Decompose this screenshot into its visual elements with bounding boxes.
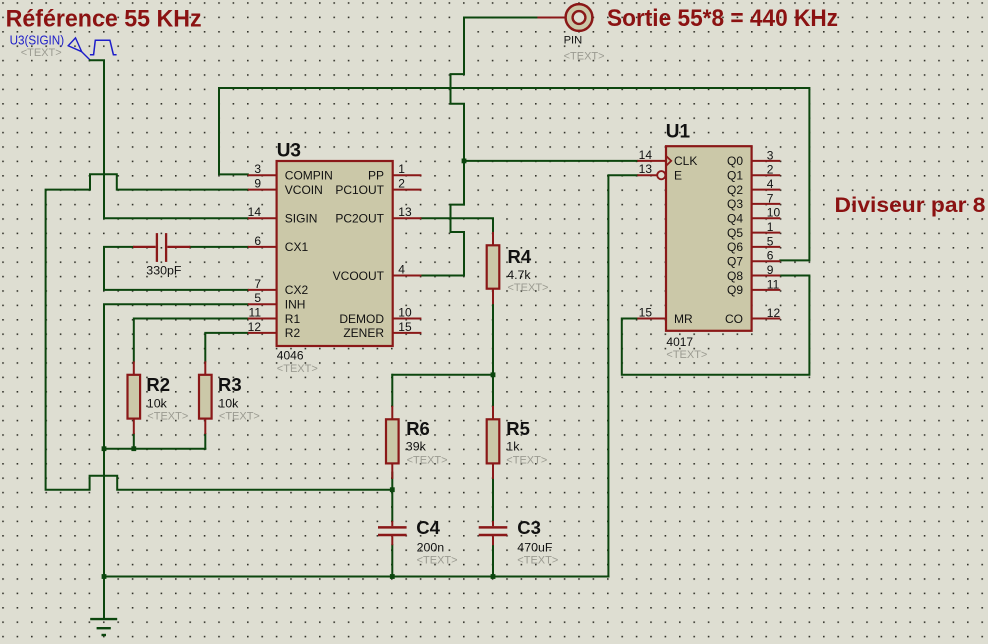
op-amp U3 body (4046 PLL) bbox=[277, 161, 393, 346]
pin 11 R1 (U3) bbox=[248, 306, 301, 326]
source probe U3(SIGIN) bbox=[10, 33, 117, 60]
wire R3 bottom bbox=[204, 434, 206, 449]
wire C4 bottom to ground rail bbox=[391, 545, 393, 576]
svg-text:12: 12 bbox=[248, 320, 262, 334]
svg-text:COMPIN: COMPIN bbox=[285, 169, 333, 183]
pin 9 VCOIN (U3) bbox=[248, 177, 323, 197]
svg-text:1k: 1k bbox=[506, 440, 520, 454]
value 330pF bbox=[146, 264, 182, 278]
pin 7 Q3 (U1) bbox=[727, 191, 780, 211]
svg-text:Diviseur par 8: Diviseur par 8 bbox=[835, 194, 986, 217]
svg-text:PIN: PIN bbox=[564, 35, 583, 47]
junction R6/C4/VCOIN node bbox=[390, 487, 395, 492]
pin 1 Q5 (U1) bbox=[727, 220, 780, 240]
pin 10 DEMOD (U3) bbox=[339, 306, 421, 326]
svg-text:11: 11 bbox=[767, 277, 780, 291]
R4 <TEXT> placeholder bbox=[508, 282, 549, 294]
svg-text:<TEXT>: <TEXT> bbox=[506, 455, 547, 467]
refdes C3 bbox=[517, 517, 541, 538]
wire C3 bottom to ground rail bbox=[492, 545, 494, 576]
wire ground rail bbox=[104, 576, 608, 578]
R3 <TEXT> placeholder bbox=[219, 411, 260, 423]
svg-text:10k: 10k bbox=[147, 397, 168, 411]
pin 14 CLK (U1) with clock chevron bbox=[637, 148, 697, 168]
pin 13 E (U1) with inversion bubble bbox=[637, 162, 682, 182]
svg-text:Q6: Q6 bbox=[727, 240, 743, 254]
junction ground rail left bbox=[102, 574, 107, 579]
refdes R4 bbox=[508, 246, 532, 267]
svg-text:CO: CO bbox=[725, 312, 743, 326]
svg-text:4046: 4046 bbox=[277, 349, 304, 363]
junction C4/ground rail bbox=[390, 574, 395, 579]
svg-text:<TEXT>: <TEXT> bbox=[21, 47, 62, 59]
R5 <TEXT> placeholder bbox=[506, 455, 547, 467]
refdes R5 bbox=[506, 418, 530, 439]
pin 10 Q4 (U1) bbox=[727, 206, 780, 226]
wire source to SIGIN corner bbox=[90, 60, 104, 218]
svg-text:R2: R2 bbox=[146, 374, 170, 395]
svg-text:14: 14 bbox=[248, 205, 262, 219]
svg-text:R2: R2 bbox=[285, 326, 301, 340]
R6 <TEXT> placeholder bbox=[407, 455, 448, 467]
wire R2/R3 bottom bus bbox=[104, 448, 205, 450]
svg-text:Q3: Q3 bbox=[727, 197, 743, 211]
pin 12 R2 (U3) bbox=[248, 320, 301, 340]
svg-text:7: 7 bbox=[254, 277, 261, 291]
ground bbox=[90, 577, 117, 636]
svg-text:PP: PP bbox=[368, 169, 384, 183]
svg-text:5: 5 bbox=[767, 234, 774, 248]
svg-text:PC2OUT: PC2OUT bbox=[335, 212, 384, 226]
svg-text:Q1: Q1 bbox=[727, 169, 743, 183]
resistor R2 (10k) bbox=[128, 361, 141, 434]
svg-text:E: E bbox=[674, 169, 682, 183]
junction R2 bottom node bbox=[131, 446, 136, 451]
svg-text:R1: R1 bbox=[285, 312, 301, 326]
wire R5 bottom to C3 top bbox=[492, 473, 494, 521]
svg-text:11: 11 bbox=[249, 306, 262, 320]
svg-text:U1: U1 bbox=[666, 121, 691, 142]
junction R4/R5/R6 node bbox=[491, 372, 496, 377]
svg-text:13: 13 bbox=[639, 162, 653, 176]
junction R2/R3 net to ground column bbox=[102, 446, 107, 451]
svg-text:VCOOUT: VCOOUT bbox=[333, 269, 385, 283]
svg-text:Q9: Q9 bbox=[727, 283, 743, 297]
svg-text:R3: R3 bbox=[218, 374, 242, 395]
wire Q8 to MR loop bbox=[622, 276, 810, 375]
svg-text:<TEXT>: <TEXT> bbox=[417, 555, 458, 567]
svg-text:MR: MR bbox=[674, 312, 693, 326]
svg-text:2: 2 bbox=[767, 163, 774, 177]
pin 2 PC1OUT (U3) bbox=[335, 177, 421, 197]
label 'Référence 55 KHz' bbox=[6, 6, 202, 32]
svg-text:4.7k: 4.7k bbox=[507, 268, 531, 282]
svg-text:4: 4 bbox=[767, 177, 774, 191]
wire U3 R2 pin to R3 top bbox=[205, 333, 248, 362]
terminal <TEXT> placeholder bbox=[564, 51, 605, 63]
svg-text:U3(SIGIN): U3(SIGIN) bbox=[10, 33, 65, 48]
C4 <TEXT> placeholder bbox=[417, 555, 458, 567]
svg-text:<TEXT>: <TEXT> bbox=[666, 349, 707, 361]
wire feedback Q7 to COMPIN rail bbox=[219, 88, 809, 260]
svg-text:10: 10 bbox=[767, 206, 781, 220]
svg-text:<TEXT>: <TEXT> bbox=[147, 411, 188, 423]
svg-text:CLK: CLK bbox=[674, 154, 697, 168]
wire R2 bottom bbox=[133, 434, 135, 449]
pin 3 Q0 (U1) bbox=[727, 148, 780, 168]
resistor R5 (1k) bbox=[487, 406, 500, 479]
svg-text:CX1: CX1 bbox=[285, 240, 309, 254]
capacitor C4 bbox=[378, 521, 407, 545]
svg-text:3: 3 bbox=[767, 148, 774, 162]
svg-text:ZENER: ZENER bbox=[343, 326, 384, 340]
reference designator U3 bbox=[277, 141, 301, 162]
pin 13 PC2OUT (U3) bbox=[335, 205, 421, 225]
wire ground column bbox=[103, 449, 105, 577]
label 'Diviseur par 8' bbox=[835, 194, 986, 217]
svg-text:1: 1 bbox=[767, 220, 774, 234]
value 470uF (C3) bbox=[517, 541, 553, 555]
svg-text:13: 13 bbox=[398, 205, 412, 219]
wire INH down left column bbox=[104, 304, 248, 449]
wire node to R5 top bbox=[492, 375, 494, 406]
resistor R4 (4.7k) bbox=[487, 232, 500, 304]
svg-text:<TEXT>: <TEXT> bbox=[277, 363, 318, 375]
svg-text:<TEXT>: <TEXT> bbox=[517, 555, 558, 567]
svg-text:6: 6 bbox=[254, 234, 261, 248]
U3 <TEXT> placeholder bbox=[277, 363, 318, 375]
wire ground rail up to U1 E bbox=[608, 175, 637, 576]
svg-text:15: 15 bbox=[639, 306, 653, 320]
refdes C4 bbox=[416, 517, 440, 538]
value 200n (C4) bbox=[417, 541, 445, 555]
capacitor C3 bbox=[479, 521, 508, 545]
R2 <TEXT> placeholder bbox=[147, 411, 188, 423]
svg-text:Q5: Q5 bbox=[727, 226, 743, 240]
pin 6 Q7 (U1) bbox=[727, 249, 780, 269]
wire VCOIN to loop-filter node (two hops) bbox=[46, 174, 393, 490]
svg-text:Sortie 55*8 = 440 KHz: Sortie 55*8 = 440 KHz bbox=[607, 6, 838, 32]
svg-text:DEMOD: DEMOD bbox=[339, 312, 384, 326]
svg-text:R4: R4 bbox=[508, 246, 532, 267]
wire VCO node down to VCOOUT (hop) bbox=[421, 161, 464, 276]
pin 6 CX1 (U3) bbox=[248, 234, 309, 254]
wire node to C4 top bbox=[391, 490, 393, 521]
svg-text:<TEXT>: <TEXT> bbox=[407, 455, 448, 467]
pin 3 COMPIN (U3) bbox=[248, 162, 333, 182]
svg-text:Q7: Q7 bbox=[727, 255, 743, 269]
value 4046 bbox=[277, 349, 304, 363]
svg-text:330pF: 330pF bbox=[146, 264, 182, 278]
svg-text:14: 14 bbox=[639, 148, 653, 162]
svg-text:CX2: CX2 bbox=[285, 283, 309, 297]
svg-text:6: 6 bbox=[767, 249, 774, 263]
svg-text:Référence 55 KHz: Référence 55 KHz bbox=[6, 6, 202, 32]
refdes R3 bbox=[218, 374, 242, 395]
value 4.7k (R4) bbox=[507, 268, 531, 282]
svg-text:R6: R6 bbox=[406, 418, 430, 439]
svg-text:10k: 10k bbox=[218, 397, 239, 411]
refdes R2 bbox=[146, 374, 170, 395]
reference designator U1 bbox=[666, 121, 691, 142]
wire node down to R6 bbox=[391, 375, 393, 406]
wire PIN to VCO output node (hop over feedback rail) bbox=[451, 18, 537, 161]
pin 4 VCOOUT (U3) bbox=[333, 263, 422, 283]
svg-text:SIGIN: SIGIN bbox=[285, 212, 318, 226]
junction VCO output node bbox=[462, 159, 467, 164]
svg-text:Q0: Q0 bbox=[727, 154, 743, 168]
pin 9 Q8 (U1) bbox=[727, 263, 780, 283]
svg-text:Q2: Q2 bbox=[727, 183, 743, 197]
svg-text:<TEXT>: <TEXT> bbox=[564, 51, 605, 63]
svg-text:Q4: Q4 bbox=[727, 212, 743, 226]
label 'Sortie 55*8 = 440 KHz' bbox=[607, 6, 838, 32]
U1 <TEXT> placeholder bbox=[666, 349, 707, 361]
svg-text:9: 9 bbox=[767, 263, 774, 277]
svg-text:<TEXT>: <TEXT> bbox=[508, 282, 549, 294]
wire 330pF left to CX2 bbox=[104, 247, 248, 290]
svg-text:7: 7 bbox=[767, 191, 774, 205]
svg-text:C3: C3 bbox=[517, 517, 541, 538]
pin 5 Q6 (U1) bbox=[727, 234, 780, 254]
value 4017 bbox=[666, 335, 693, 349]
svg-text:2: 2 bbox=[398, 177, 405, 191]
counter U1 body (4017) bbox=[666, 146, 752, 331]
svg-text:3: 3 bbox=[254, 162, 261, 176]
value 10k (R3) bbox=[218, 397, 239, 411]
C3 <TEXT> placeholder bbox=[517, 555, 558, 567]
pin 4 Q2 (U1) bbox=[727, 177, 780, 197]
svg-text:Q8: Q8 bbox=[727, 269, 743, 283]
pin 14 SIGIN (U3) bbox=[248, 205, 318, 225]
svg-text:U3: U3 bbox=[277, 141, 301, 162]
source <TEXT> placeholder bbox=[21, 47, 62, 59]
svg-text:VCOIN: VCOIN bbox=[285, 183, 323, 197]
value 10k (R2) bbox=[147, 397, 168, 411]
capacitor C1 330pF (horizontal, at CX1) bbox=[133, 233, 190, 262]
svg-text:39k: 39k bbox=[406, 440, 427, 454]
pin 2 Q1 (U1) bbox=[727, 163, 780, 183]
wire R6 bottom to VCOIN node bbox=[391, 473, 393, 490]
wire node to R6 top bbox=[392, 374, 493, 376]
junction C3/ground rail bbox=[491, 574, 496, 579]
resistor R6 (39k) bbox=[386, 406, 399, 479]
pin 15 MR (U1) bbox=[637, 306, 693, 326]
svg-text:C4: C4 bbox=[416, 517, 440, 538]
pin 11 Q9 (U1) bbox=[727, 277, 780, 297]
svg-text:15: 15 bbox=[398, 320, 412, 334]
value 1k (R5) bbox=[506, 440, 520, 454]
terminal PIN (Sortie) bbox=[536, 4, 592, 31]
pin 7 CX2 (U3) bbox=[248, 277, 309, 297]
svg-text:4: 4 bbox=[398, 263, 405, 277]
svg-text:4017: 4017 bbox=[666, 335, 693, 349]
value 39k (R6) bbox=[406, 440, 427, 454]
svg-text:200n: 200n bbox=[417, 541, 445, 555]
wire U3 R1 to R2 top bbox=[134, 319, 248, 362]
pin 15 ZENER (U3) bbox=[343, 320, 421, 340]
svg-text:470uF: 470uF bbox=[517, 541, 553, 555]
refdes R6 bbox=[406, 418, 430, 439]
wire PC2OUT to R4 top bbox=[421, 218, 493, 234]
pin 12 CO (U1) bbox=[725, 306, 780, 326]
pin 1 PP (U3) bbox=[368, 162, 421, 182]
svg-text:1: 1 bbox=[398, 162, 405, 176]
svg-text:R5: R5 bbox=[506, 418, 530, 439]
svg-text:INH: INH bbox=[285, 298, 306, 312]
wire 330pF to CX1 bbox=[190, 246, 248, 248]
svg-text:PC1OUT: PC1OUT bbox=[335, 183, 384, 197]
terminal name PIN bbox=[564, 35, 583, 47]
svg-text:10: 10 bbox=[398, 306, 412, 320]
wire SIGIN row bbox=[104, 217, 248, 219]
wire R4 bottom to node bbox=[492, 304, 494, 375]
svg-text:<TEXT>: <TEXT> bbox=[219, 411, 260, 423]
pin 5 INH (U3) bbox=[248, 291, 306, 311]
svg-text:5: 5 bbox=[254, 291, 261, 305]
wire VCO node to U1 CLK bbox=[464, 160, 637, 162]
svg-text:12: 12 bbox=[767, 306, 781, 320]
svg-text:9: 9 bbox=[254, 177, 261, 191]
resistor R3 (10k) bbox=[199, 361, 212, 434]
